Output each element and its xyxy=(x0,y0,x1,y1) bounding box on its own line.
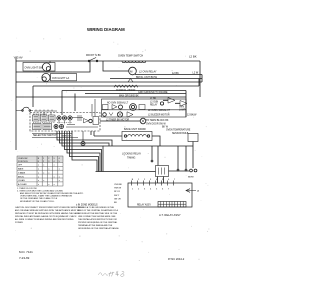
svg-text:OVN DOOR SW W: OVN DOOR SW W xyxy=(146,124,166,126)
svg-text:SPECIAL INSULATION AND GAUGE O: SPECIAL INSULATION AND GAUGE OR ITS EQUI… xyxy=(15,215,77,218)
svg-text:TIMER BK: TIMER BK xyxy=(61,135,72,137)
svg-text:TERMINAL AT THE RANGE AND THE: TERMINAL AT THE RANGE AND THE xyxy=(78,224,113,227)
switch on top rail xyxy=(88,60,90,62)
wire y82 bottom of light circuit long xyxy=(16,81,202,83)
svg-text:A.T. RELAY ASSY: A.T. RELAY ASSY xyxy=(159,213,181,217)
svg-text:x: x xyxy=(48,172,49,174)
svg-text:RLY R: RLY R xyxy=(114,191,120,193)
selector contacts row1 xyxy=(33,115,40,121)
svg-text:GROUNDING OF THE CENTRAL AT RA: GROUNDING OF THE CENTRAL AT RANGE. xyxy=(78,227,120,230)
svg-text:L2 OVN RELAY: L2 OVN RELAY xyxy=(139,70,157,73)
wire from bake unit stepping right xyxy=(152,136,160,146)
svg-text:12 BK/W: 12 BK/W xyxy=(187,114,197,117)
svg-text:x: x xyxy=(54,165,55,167)
svg-text:L2 OVEN SIGNAL LT: L2 OVEN SIGNAL LT xyxy=(148,109,170,112)
wire y90.5 xyxy=(62,90,186,92)
svg-text:POSITION: POSITION xyxy=(18,161,28,163)
terminal row above selector box xyxy=(34,110,57,112)
svg-text:ANY ORIGINAL WIRE AS SUPPLIED: ANY ORIGINAL WIRE AS SUPPLIED WITH THE A… xyxy=(15,209,80,212)
table switch chart xyxy=(17,156,63,162)
svg-text:BK W R BU OR Y: BK W R BU OR Y xyxy=(33,114,48,116)
svg-text:x: x xyxy=(43,172,44,174)
relay cluster row 2 xyxy=(103,113,107,117)
svg-text:TO TERM BLOCK BK: TO TERM BLOCK BK xyxy=(146,120,169,122)
svg-text:GRN GROUND TO FRAME: GRN GROUND TO FRAME xyxy=(138,91,168,94)
svg-text:SW Y: SW Y xyxy=(114,195,120,197)
wire top rail xyxy=(16,60,200,62)
svg-text:RELAY ASSY: RELAY ASSY xyxy=(137,204,151,207)
wire y146 long xyxy=(103,145,193,147)
terminals on top edge xyxy=(132,181,174,186)
wire y121 xyxy=(100,120,140,122)
switch oven light switch box xyxy=(23,63,55,72)
lamp oven light switch circle xyxy=(42,63,50,71)
svg-text:12 BK: 12 BK xyxy=(172,72,179,75)
svg-text:A CLEAN: A CLEAN xyxy=(18,183,27,186)
svg-text:x: x xyxy=(54,176,55,178)
wire from relay box right xyxy=(169,170,190,172)
arrow into right edge xyxy=(186,189,196,193)
svg-text:2. OVEN DOOR MUST BE CLOSED A: 2. OVEN DOOR MUST BE CLOSED AND LOCKED xyxy=(17,189,64,192)
svg-text:REPLACED IT MUST BE REPLACED W: REPLACED IT MUST BE REPLACED WITH WIRE H… xyxy=(15,212,80,215)
selector contacts row2 xyxy=(33,124,42,130)
wire y97 xyxy=(16,96,186,98)
svg-text:BK/W: BK/W xyxy=(188,177,195,179)
paragraph right xyxy=(78,206,120,230)
wire y93.5 xyxy=(85,93,186,95)
svg-text:WIRING DIAGRAM: WIRING DIAGRAM xyxy=(87,27,125,32)
thermostat cluster box xyxy=(102,99,187,117)
svg-text:x: x xyxy=(59,176,60,178)
svg-text:OVN BK: OVN BK xyxy=(114,184,122,186)
svg-text:RELAY: RELAY xyxy=(150,104,158,107)
wire middle of light circuit xyxy=(16,61,90,72)
svg-text:P/ NC 2044-2: P/ NC 2044-2 xyxy=(168,257,185,261)
svg-text:Y73 AV: Y73 AV xyxy=(14,56,23,60)
svg-text:PROPER GROUNDING OF THE CENTRA: PROPER GROUNDING OF THE CENTRAL xyxy=(78,221,118,224)
svg-text:OF THE OVEN AND THE CLEAN CYCL: OF THE OVEN AND THE CLEAN CYCLE xyxy=(20,197,58,200)
notes under table xyxy=(17,188,84,203)
svg-text:L2 BK: L2 BK xyxy=(189,55,197,59)
wire y74.5 xyxy=(135,74,202,76)
wire y78.5 xyxy=(110,78,202,80)
switch door switch xyxy=(16,107,33,110)
svg-text:MODELS A TO BE GROUNDED IN THE: MODELS A TO BE GROUNDED IN THE xyxy=(78,206,115,209)
connector hooks verticals xyxy=(152,142,193,170)
svg-text:BROIL: BROIL xyxy=(18,176,25,178)
svg-text:GROUND AT THE NEUTRAL SIDE OF: GROUND AT THE NEUTRAL SIDE OF THE xyxy=(78,212,118,215)
connector V plug xyxy=(128,79,133,83)
terminal strip hatched xyxy=(158,202,186,208)
relay cluster row 1 xyxy=(103,105,109,110)
svg-text:T BAKE: T BAKE xyxy=(18,171,26,174)
svg-text:SENSOR BULB: SENSOR BULB xyxy=(172,133,189,135)
svg-text:LT BK: LT BK xyxy=(150,98,157,100)
svg-text:GN OR: GN OR xyxy=(114,198,121,200)
heater broil unit zigzag xyxy=(114,85,138,87)
svg-text:CLEAN: CLEAN xyxy=(18,179,25,182)
verticals from relay cluster down xyxy=(91,131,94,136)
wire y87.5 xyxy=(33,85,199,87)
svg-text:MOVEMENT OF THE CLEAN CYCLE.: MOVEMENT OF THE CLEAN CYCLE. xyxy=(20,200,55,203)
lamp oven light lamp xyxy=(42,73,50,81)
svg-text:FRONT TL BK: FRONT TL BK xyxy=(86,55,101,57)
svg-text:x: x xyxy=(38,165,39,167)
svg-text:x: x xyxy=(48,184,49,186)
svg-text:x: x xyxy=(43,165,44,167)
svg-text:OVN: OVN xyxy=(179,107,184,109)
svg-text:OVN LIGHT LA: OVN LIGHT LA xyxy=(52,77,70,80)
svg-text:x: x xyxy=(38,169,39,171)
wire right stub vertical xyxy=(201,75,203,83)
svg-text:L2 OVN: L2 OVN xyxy=(150,102,159,104)
svg-text:L2 W: L2 W xyxy=(193,72,199,75)
svg-text:x: x xyxy=(59,180,60,182)
svg-text:CAUTION: DISCONNECT FROM POWER: CAUTION: DISCONNECT FROM POWER SUPPLY BE… xyxy=(15,206,85,209)
box A.T. relay assembly xyxy=(128,183,192,207)
stubs from relay box to big box xyxy=(158,177,164,184)
svg-text:NO OVN SIGNAL LT: NO OVN SIGNAL LT xyxy=(107,102,129,105)
svg-text:x: x xyxy=(48,169,49,171)
svg-text:AND SELECTOR SW SET AT CLEAN P: AND SELECTOR SW SET AT CLEAN POSITION BE… xyxy=(20,192,84,195)
stubs into selector box xyxy=(44,113,51,116)
selector switch dashed box xyxy=(30,113,100,132)
svg-text:7-23-69: 7-23-69 xyxy=(19,256,30,260)
junction component xyxy=(81,142,85,146)
stub from rail to light box xyxy=(49,61,51,63)
svg-text:OVN LIGHT SW: OVN LIGHT SW xyxy=(25,66,44,69)
svg-text:TMR W: TMR W xyxy=(114,188,121,190)
svg-text:BAKE: BAKE xyxy=(18,168,24,171)
svg-text:M.D. 7121: M.D. 7121 xyxy=(19,250,33,254)
svg-text:ALL WIRE CONNECTIONS AND WIRIN: ALL WIRE CONNECTIONS AND WIRING BEFORE R… xyxy=(15,218,74,221)
wire left rail xyxy=(15,57,17,150)
wire right verticals xyxy=(186,79,199,118)
wire right rail xyxy=(199,61,201,97)
svg-text:BAKE UNIT 3000W: BAKE UNIT 3000W xyxy=(124,128,146,131)
svg-text:POWER.: POWER. xyxy=(15,222,24,224)
svg-text:THE INSTALLATION INSTRUCTIONS: THE INSTALLATION INSTRUCTIONS FOR xyxy=(78,218,117,221)
svg-text:x: x xyxy=(38,176,39,178)
wire inner y111 xyxy=(102,109,187,111)
svg-text:x: x xyxy=(59,169,60,171)
svg-text:x: x xyxy=(54,184,55,186)
svg-text:BK W: BK W xyxy=(162,127,169,129)
svg-text:x: x xyxy=(38,180,39,182)
wire long horizontal to locking relay xyxy=(96,171,156,173)
svg-text:OVEN TEMPERATURE: OVEN TEMPERATURE xyxy=(166,129,191,132)
handwriting page 8 xyxy=(99,271,125,277)
temperature bulb box xyxy=(188,134,198,142)
svg-text:BROIL UNIT BK/W: BROIL UNIT BK/W xyxy=(136,76,158,79)
svg-text:BU: BU xyxy=(114,202,117,204)
svg-text:TIMING: TIMING xyxy=(127,157,136,160)
svg-text:OVEN TEMP SWITCH: OVEN TEMP SWITCH xyxy=(118,55,143,58)
svg-text:SELECTOR SWITCH: SELECTOR SWITCH xyxy=(33,134,57,137)
svg-text:L2 BUZZER MOTOR: L2 BUZZER MOTOR xyxy=(148,115,170,117)
svg-text:FIELD IF THE CENTRAL IS EARTHE: FIELD IF THE CENTRAL IS EARTHED BY A xyxy=(78,209,118,212)
relay locking relay box xyxy=(156,166,169,177)
svg-text:x: x xyxy=(38,172,39,174)
diode arrows right cluster xyxy=(168,98,175,104)
svg-text:LINE CONNECT AS SHOWN HERE. SE: LINE CONNECT AS SHOWN HERE. SEE xyxy=(78,215,116,218)
svg-text:x: x xyxy=(38,184,39,186)
svg-text:L2 TIMER BK MOTOR: L2 TIMER BK MOTOR xyxy=(106,119,129,121)
svg-text:LOCKING RELAY: LOCKING RELAY xyxy=(122,153,141,156)
wire bundle verticals from selector xyxy=(57,131,112,146)
svg-text:x: x xyxy=(43,180,44,182)
relay L2 oven relay circle xyxy=(103,61,129,71)
paragraph left xyxy=(15,206,85,224)
svg-text:OVEN TIMER WILL START THE CLEA: OVEN TIMER WILL START THE CLEANING OPERA… xyxy=(20,195,72,198)
